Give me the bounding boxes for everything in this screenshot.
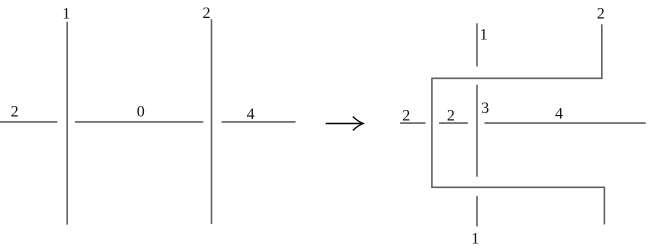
svg-text:2: 2 <box>402 108 410 125</box>
svg-text:2: 2 <box>597 6 605 23</box>
svg-text:2: 2 <box>447 108 455 125</box>
wire main strand segment c (right figure) <box>485 122 646 124</box>
wire strand 1 bottom segment (right figure) <box>476 196 478 227</box>
right figure: finger move result <box>400 6 646 248</box>
wire finger top-right vertical <box>601 24 603 79</box>
wire main strand segment b (right figure) <box>439 122 468 124</box>
wire horizontal strand segment b (left figure) <box>75 121 203 123</box>
wire finger bottom-right vertical <box>603 187 605 225</box>
wire vertical strand 1 (left figure) <box>66 22 68 225</box>
svg-text:4: 4 <box>247 106 255 123</box>
wire horizontal strand segment a (left figure) <box>0 121 57 123</box>
svg-text:2: 2 <box>11 103 19 120</box>
wire finger top horizontal <box>432 77 603 79</box>
left figure: strand 1 vertical over-crossing <box>0 5 296 224</box>
wire strand 1 middle segment (right figure) <box>476 85 478 177</box>
wire horizontal strand segment c (left figure) <box>222 121 296 123</box>
svg-text:0: 0 <box>137 104 145 121</box>
wire strand 1 top segment (right figure) <box>476 23 478 66</box>
svg-text:2: 2 <box>203 5 211 22</box>
wire vertical strand 2 (left figure) <box>211 19 213 224</box>
svg-text:4: 4 <box>555 106 563 123</box>
wire main strand segment a (right figure) <box>400 122 425 124</box>
svg-text:1: 1 <box>471 231 479 248</box>
wire finger left vertical <box>431 78 433 188</box>
svg-text:1: 1 <box>480 26 488 43</box>
svg-text:3: 3 <box>481 100 489 117</box>
arrow (maps left figure to right figure) <box>326 117 364 131</box>
wire finger bottom horizontal <box>432 186 605 188</box>
svg-text:1: 1 <box>62 6 70 23</box>
